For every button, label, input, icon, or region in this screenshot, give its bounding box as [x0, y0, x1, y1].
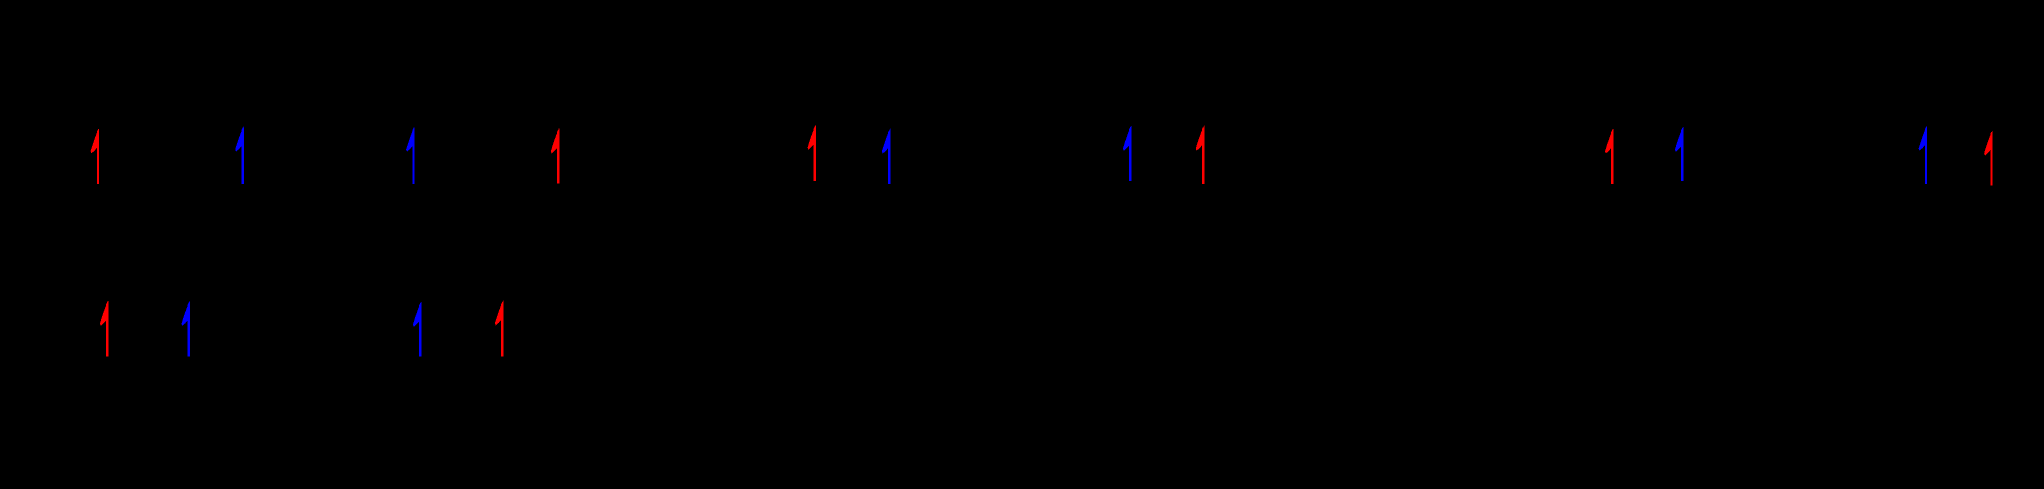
blue spin-up arrow, structure 6 left (A11) — [1919, 126, 1928, 184]
blue spin-up arrow, structure 5 right (A10) — [1675, 126, 1684, 180]
red spin-up arrow, structure 1 upper-left (A1) — [91, 128, 100, 184]
red spin-up arrow, structure 1 lower-left (B1) — [100, 300, 109, 356]
blue spin-up arrow, structure 3 right (A6) — [882, 128, 891, 183]
blue spin-up arrow, structure 4 left (A7) — [1123, 126, 1132, 181]
red spin-up arrow, structure 2 upper-right (A4) — [551, 128, 560, 183]
red spin-up arrow, structure 4 right (A8) — [1196, 126, 1205, 184]
blue spin-up arrow, structure 2 lower-left (B3) — [413, 302, 422, 357]
blue spin-up arrow, structure 2 upper-left (A3) — [406, 127, 415, 184]
red spin-up arrow, structure 2 lower-right (B4) — [495, 300, 504, 357]
red spin-up arrow, structure 5 left (A9) — [1605, 128, 1614, 184]
red spin-up arrow, structure 6 right (A12) — [1984, 130, 1993, 186]
red spin-up arrow, structure 3 left (A5) — [808, 125, 817, 181]
blue spin-up arrow, structure 1 upper-right (A2) — [235, 126, 244, 184]
blue spin-up arrow, structure 1 lower-right (B2) — [182, 301, 191, 357]
